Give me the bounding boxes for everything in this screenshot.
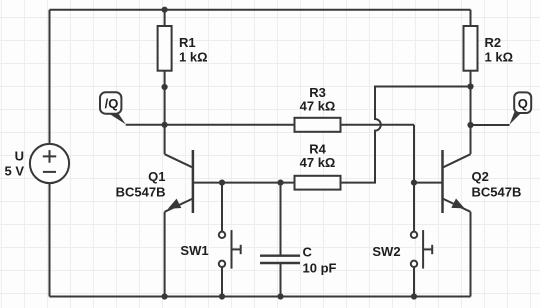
wire left supply column bbox=[49, 10, 51, 144]
wire to Q label bbox=[471, 124, 510, 126]
wire Q2 emitter to bottom rail bbox=[470, 212, 472, 297]
capacitor C 10 pF bbox=[260, 183, 300, 297]
svg-text:47 kΩ: 47 kΩ bbox=[300, 155, 336, 170]
transistor Q2 BC547B bbox=[443, 125, 471, 213]
node C rail junction bbox=[277, 293, 283, 299]
wire /Q line to R3 bbox=[126, 124, 295, 126]
node C branch junction bbox=[277, 180, 283, 186]
switch SW2 bbox=[411, 183, 432, 297]
svg-text:C: C bbox=[303, 245, 313, 260]
svg-text:SW1: SW1 bbox=[180, 243, 208, 258]
node SW1 branch junction bbox=[219, 180, 225, 186]
resistor R2 1 kΩ bbox=[464, 10, 478, 87]
node /Q line junction bbox=[162, 122, 168, 128]
svg-text:10 pF: 10 pF bbox=[303, 261, 337, 276]
svg-text:5 V: 5 V bbox=[4, 164, 24, 179]
node R2 bottom / R4 junction bbox=[467, 83, 473, 89]
wire source to bottom rail bbox=[49, 183, 51, 297]
svg-text:1 kΩ: 1 kΩ bbox=[179, 50, 208, 65]
svg-text:/Q: /Q bbox=[105, 96, 119, 111]
svg-text:BC547B: BC547B bbox=[472, 185, 522, 200]
svg-text:1 kΩ: 1 kΩ bbox=[485, 50, 514, 65]
net label /Q bbox=[100, 92, 126, 124]
wire Q1 emitter to bottom rail bbox=[164, 212, 166, 297]
transistor Q1 BC547B bbox=[165, 125, 193, 213]
svg-text:BC547B: BC547B bbox=[116, 185, 166, 200]
resistor R1 1 kΩ bbox=[158, 10, 172, 87]
switch SW1 bbox=[219, 183, 241, 297]
node Q1 emitter rail junction bbox=[162, 293, 168, 299]
node SW2 rail junction bbox=[411, 293, 417, 299]
wire top rail bbox=[50, 9, 471, 11]
resistor R3 47 kΩ bbox=[295, 118, 341, 132]
svg-text:Q2: Q2 bbox=[472, 169, 489, 184]
wire R4 riser with hop over R3 wire, to R2 bottom bbox=[341, 87, 471, 183]
wire Q1 base line to R4 bbox=[193, 182, 295, 184]
wire Q2 base bbox=[414, 182, 443, 184]
svg-text:47 kΩ: 47 kΩ bbox=[300, 99, 336, 114]
wire R1 pin to /Q line bbox=[164, 87, 166, 125]
node R1 top junction bbox=[162, 7, 168, 13]
node SW1 rail junction bbox=[219, 293, 225, 299]
svg-text:R2: R2 bbox=[485, 35, 502, 50]
svg-text:U: U bbox=[15, 149, 24, 164]
svg-text:Q1: Q1 bbox=[148, 169, 165, 184]
wire R3 right lead bbox=[341, 124, 415, 126]
wire bottom rail bbox=[50, 296, 471, 298]
node Q line junction bbox=[467, 122, 473, 128]
node Q2 base / R3 / SW2 junction bbox=[411, 180, 417, 186]
resistor R4 47 kΩ bbox=[295, 176, 341, 190]
voltage source U 5 V bbox=[30, 144, 69, 183]
wire Q column upper bbox=[470, 87, 472, 126]
svg-text:SW2: SW2 bbox=[372, 244, 400, 259]
svg-text:Q: Q bbox=[518, 96, 528, 111]
net label Q bbox=[509, 92, 531, 124]
wire R3 elbow down to Q2 base junction bbox=[413, 125, 415, 183]
svg-text:R1: R1 bbox=[179, 35, 196, 50]
node R1 bottom pin bbox=[162, 84, 168, 90]
